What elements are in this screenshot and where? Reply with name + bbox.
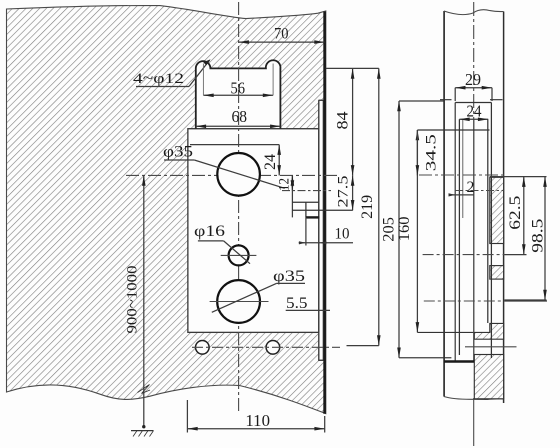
lock case inner wall bbox=[462, 119, 464, 218]
cylinder centerline bbox=[424, 300, 505, 302]
svg-text:φ16: φ16 bbox=[194, 223, 225, 240]
centerline ticks of phi35 lower bbox=[210, 301, 269, 303]
dim 27.5 bbox=[336, 176, 352, 208]
case bottom thick bbox=[444, 360, 474, 362]
side hatch block B5 bbox=[474, 355, 503, 399]
centerline ticks of phi16 bbox=[221, 254, 257, 256]
screw centerline side bbox=[465, 346, 517, 348]
hole phi35 lower bbox=[217, 280, 260, 323]
svg-text:68: 68 bbox=[232, 107, 248, 126]
svg-text:12: 12 bbox=[277, 178, 293, 191]
lock case side bbox=[458, 119, 460, 355]
svg-text:160: 160 bbox=[396, 217, 413, 242]
svg-text:4~φ12: 4~φ12 bbox=[133, 71, 184, 87]
svg-text:24: 24 bbox=[467, 102, 482, 121]
svg-text:900~1000: 900~1000 bbox=[124, 266, 140, 334]
svg-text:φ35: φ35 bbox=[273, 268, 305, 285]
door section (front view) hatched body bbox=[7, 6, 326, 414]
dim 160 bbox=[396, 217, 413, 242]
hub centerline bbox=[423, 254, 505, 256]
screw hole right bbox=[266, 341, 280, 355]
latch centerline side bbox=[455, 190, 504, 192]
horizontal centerline (lock center) bbox=[126, 174, 338, 176]
screw holes centerline bbox=[192, 346, 340, 348]
svg-text:φ35: φ35 bbox=[163, 144, 193, 161]
side hatch block B2 bbox=[490, 266, 504, 280]
door edge thick line bbox=[323, 12, 326, 414]
svg-text:34.5: 34.5 bbox=[424, 134, 440, 171]
dim 34.5 bbox=[424, 134, 440, 171]
dim 98.5 bbox=[529, 219, 546, 253]
door edges bbox=[443, 11, 445, 397]
side hatch block B1 bbox=[490, 177, 504, 243]
svg-text:110: 110 bbox=[245, 411, 270, 430]
latch centerline bbox=[282, 190, 331, 192]
break zigzag on dim line bbox=[138, 385, 151, 394]
svg-text:10: 10 bbox=[335, 226, 350, 243]
svg-text:2: 2 bbox=[467, 179, 475, 196]
svg-text:27.5: 27.5 bbox=[336, 176, 352, 208]
faceplate side bbox=[455, 102, 491, 104]
top break line bbox=[444, 10, 504, 15]
dim 900~1000 bbox=[124, 266, 140, 334]
svg-text:5.5: 5.5 bbox=[286, 295, 308, 312]
center axis bbox=[473, 2, 475, 119]
svg-text:24: 24 bbox=[262, 154, 279, 170]
dim 84 bbox=[335, 112, 352, 130]
vertical centerline of lock bbox=[238, 2, 240, 411]
faceplate recess hidden dashes bbox=[440, 99, 452, 101]
dim 219 bbox=[359, 195, 376, 219]
dim 62.5 bbox=[507, 196, 524, 230]
dim 205 bbox=[381, 217, 398, 242]
hole phi16 bbox=[229, 245, 249, 265]
svg-text:70: 70 bbox=[274, 26, 289, 43]
bottom break line bbox=[444, 397, 504, 400]
svg-text:98.5: 98.5 bbox=[529, 219, 546, 253]
mortise window outline bbox=[188, 129, 319, 333]
svg-text:29: 29 bbox=[465, 70, 481, 89]
dim 12 bbox=[277, 178, 293, 191]
mortise bottom line bbox=[417, 331, 473, 333]
top slot outline with phi12 bumps bbox=[196, 60, 281, 128]
faceplate strip (edge view) bbox=[319, 100, 323, 360]
svg-text:219: 219 bbox=[359, 195, 376, 219]
latch bolt detail bbox=[292, 201, 319, 203]
lock centerline side bbox=[419, 174, 504, 176]
svg-text:56: 56 bbox=[231, 79, 246, 98]
svg-text:84: 84 bbox=[335, 112, 352, 130]
screw hole left bbox=[196, 341, 210, 355]
hole phi35 upper bbox=[217, 153, 260, 196]
floor level symbol bbox=[131, 430, 154, 432]
dim 24 (left view) bbox=[262, 154, 279, 170]
side hatch block B3+B4 L-shape bbox=[474, 323, 503, 339]
svg-text:62.5: 62.5 bbox=[507, 196, 524, 230]
mortise top line bbox=[417, 129, 489, 131]
